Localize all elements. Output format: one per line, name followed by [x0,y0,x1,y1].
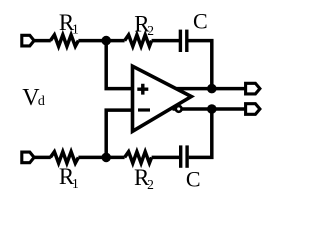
wire: R2 to C (top) [152,39,179,43]
capacitor C (top) plate 1 [179,30,182,52]
wire: P2 to R1 (bottom) [34,156,51,160]
wire: C to bottom output node (corner) [189,109,212,157]
wire: R1 to R2 through node B (bottom) [78,156,124,160]
svg-text:C: C [186,166,201,191]
resistor R1 (bottom) [50,152,78,163]
input port P2 (bottom input terminal) [22,152,34,163]
svg-text:1: 1 [72,21,79,36]
wire: op-amp top output to output port [176,87,245,91]
resistor R1 (top) [50,35,78,46]
svg-text:2: 2 [147,177,154,192]
svg-text:d: d [38,94,45,109]
node A (top junction dot) [101,36,111,46]
capacitor C (bottom) plate 1 [179,145,182,167]
capacitor C (bottom) plate 2 [185,145,188,167]
wire: node B up to op-amp - input [106,110,132,157]
svg-text:C: C [193,8,208,33]
wire: C to top output node (corner) [188,41,211,89]
op-amp U1 plus input symbol [137,84,148,95]
output port P3 (top) [246,83,260,94]
wire: node A down to op-amp + input [106,41,132,89]
inversion bubble on op-amp bottom output [176,106,182,112]
resistor R2 (bottom) [125,152,152,163]
node D (bottom output junction dot) [207,104,217,114]
capacitor C (top) plate 2 [185,30,188,52]
op-amp U1 triangle [133,66,192,131]
node B (bottom junction dot) [101,153,111,163]
output port P4 (bottom) [246,104,260,115]
wire: op-amp bottom output to output port [173,107,246,111]
svg-text:1: 1 [72,176,79,191]
resistor R2 (top) [125,35,152,46]
op-amp U1 minus input symbol [138,108,150,111]
wire: P1 to R1 [34,39,51,43]
input port P1 (top input terminal) [22,35,34,46]
wire: R2 to C (bottom) [152,156,180,160]
node C (top output junction dot) [207,84,217,94]
svg-text:2: 2 [147,23,154,38]
wire: R1 to R2 through node A [78,39,124,43]
